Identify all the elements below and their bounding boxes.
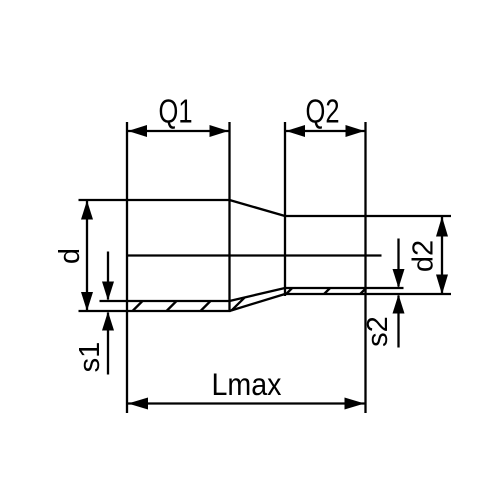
svg-text:Q2: Q2: [306, 93, 340, 130]
svg-text:Q1: Q1: [159, 93, 193, 130]
svg-text:s1: s1: [74, 342, 106, 373]
svg-text:Lmax: Lmax: [212, 366, 282, 402]
svg-text:d: d: [54, 248, 86, 264]
svg-text:s2: s2: [362, 316, 394, 347]
svg-text:d2: d2: [408, 240, 440, 272]
